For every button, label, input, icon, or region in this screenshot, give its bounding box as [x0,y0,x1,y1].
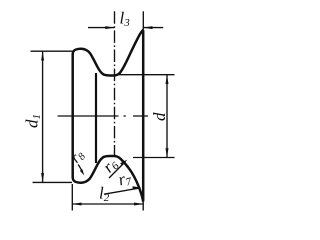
wire: right face of rim [142,30,145,200]
arrow: d bottom [166,148,169,157]
pulley rim outline, top half [73,30,144,202]
wire: l3 left dimension tail [88,27,115,29]
wire: l3 right extension line [142,11,144,30]
svg-text:d: d [150,112,169,121]
svg-text:l3: l3 [120,9,131,30]
node: pulley axis line (horizontal dash-dot) [58,115,149,117]
wire: d top extension line [118,74,175,76]
wire: bottom half profile (mirror of top about axis) [73,156,144,202]
svg-text:l2: l2 [99,184,110,205]
arrow: r8 leader [80,169,85,175]
arrow: d top [166,75,169,84]
wire: top half profile (flange crest, groove S-curve, right rise) [73,30,144,76]
arrow: l3 right (pointing left) [143,26,152,29]
arrow: r6 leader [120,160,127,166]
svg-text:d1: d1 [22,114,43,128]
wire: l2 left extension line [71,184,73,211]
arrow: l2 right (pointing right) [134,203,143,206]
wire: l2 right extension line [142,201,144,211]
wire: d1 top extension line [31,50,74,52]
wire: l3 right dimension tail [143,27,163,29]
wire: left face of rim [71,54,74,117]
svg-text:r8: r8 [67,146,89,167]
arrow: l3 left (pointing right) [105,26,114,29]
wire: left face lower part [71,116,74,178]
arrow: l2 left (pointing left) [72,203,81,206]
node: groove center line (vertical dash-dot) [114,11,116,155]
wire: d1 dimension line [42,51,44,182]
arrow: r7 leader [132,186,141,189]
arrow: d1 bottom [41,173,44,182]
wire: r7 leader line [104,188,139,194]
wire: inner web face line [95,73,97,163]
wire: d1 bottom extension line [33,181,73,183]
wire: d dimension line [166,75,168,158]
wire: l2 dimension line [72,203,143,205]
wire: r8 leader line [78,165,82,171]
arrow: d1 top [41,51,44,60]
wire: d bottom extension line [133,157,175,159]
wire: r6 leader line [109,162,126,179]
